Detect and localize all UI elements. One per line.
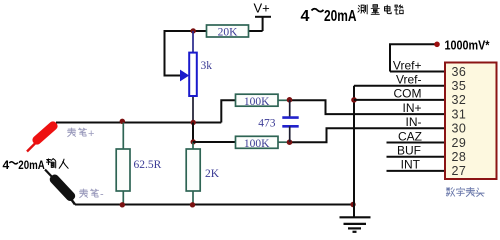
capacitor 473 — [258, 100, 298, 142]
svg-text:30: 30 — [452, 122, 467, 136]
wire Vref- — [354, 85, 446, 87]
power V+ — [254, 1, 272, 31]
svg-text:31: 31 — [452, 107, 467, 121]
resistor 20K — [207, 25, 249, 38]
label 表笔+ — [68, 128, 87, 137]
svg-text:32: 32 — [452, 93, 467, 107]
label 数字表头 — [446, 187, 484, 196]
svg-text:28: 28 — [452, 150, 467, 164]
wire INT stub — [387, 170, 447, 172]
svg-text:29: 29 — [452, 136, 467, 150]
resistor 2K — [186, 142, 220, 205]
svg-text:INT: INT — [401, 158, 421, 172]
svg-text:473: 473 — [258, 118, 276, 130]
svg-text:IN+: IN+ — [402, 101, 421, 115]
wire pot loop — [165, 31, 207, 76]
svg-text:100K: 100K — [244, 138, 270, 150]
svg-text:2K: 2K — [205, 168, 220, 180]
wire 20K row — [249, 30, 263, 32]
svg-text:Vref-: Vref- — [396, 73, 422, 87]
svg-text:IN-: IN- — [406, 115, 422, 129]
svg-text:20K: 20K — [218, 26, 239, 38]
node junction rail 62.5R — [120, 202, 125, 207]
wire BUF stub — [387, 156, 447, 158]
wire pot-to-2K column — [192, 123, 194, 143]
svg-text:3k: 3k — [201, 60, 213, 72]
node junction 62.5R top — [120, 119, 125, 124]
wire IN- jog — [290, 128, 447, 142]
wire COM — [354, 99, 446, 101]
meter U1 digital panel — [445, 63, 497, 180]
wire bottom100K row — [193, 141, 236, 143]
wire 100K left riser — [221, 100, 236, 122]
node junction COM — [351, 97, 357, 103]
title 4~20mA — [301, 8, 357, 25]
node junction cap top — [287, 97, 293, 103]
title 测量电路 — [358, 5, 403, 15]
node Vref+ 1000mV — [390, 37, 490, 71]
svg-text:1000mV*: 1000mV* — [445, 37, 491, 52]
svg-text:20mA: 20mA — [324, 8, 357, 25]
node junction cap bottom — [287, 139, 293, 145]
resistor 62.5R — [116, 123, 161, 205]
svg-text:4: 4 — [3, 158, 10, 172]
node junction rail 2K — [190, 202, 195, 207]
potentiometer 3k — [180, 31, 212, 123]
resistor 100K top — [236, 94, 290, 108]
wire main top row — [56, 122, 221, 124]
svg-text:100K: 100K — [244, 96, 270, 108]
probe red 表笔+ — [27, 120, 59, 152]
node junction pot bottom — [191, 120, 196, 125]
svg-text:20mA: 20mA — [18, 158, 45, 172]
node junction rail ground column — [350, 202, 355, 207]
svg-text:+: + — [88, 128, 94, 140]
svg-text:36: 36 — [452, 65, 467, 79]
label 表笔- — [80, 189, 99, 198]
svg-text:CAZ: CAZ — [398, 129, 422, 143]
svg-text:35: 35 — [452, 79, 467, 93]
svg-text:Vref+: Vref+ — [393, 58, 422, 72]
svg-text:V+: V+ — [254, 1, 270, 16]
wire ground column — [353, 86, 355, 218]
node junction pot top — [191, 28, 196, 33]
probe black 表笔- — [45, 170, 77, 205]
wire ground rail — [75, 204, 354, 206]
wire IN+ jog — [290, 100, 447, 114]
wire Vref+ — [390, 71, 446, 73]
node junction 2K top — [191, 139, 196, 144]
svg-text:62.5R: 62.5R — [134, 159, 162, 171]
svg-text:4: 4 — [301, 8, 310, 25]
svg-text:BUF: BUF — [397, 144, 421, 158]
svg-text:27: 27 — [452, 164, 467, 178]
wire CAZ stub — [387, 142, 447, 144]
svg-text:-: - — [100, 189, 104, 201]
svg-text:COM: COM — [394, 87, 422, 101]
resistor 100K bottom — [236, 136, 290, 150]
label 4~20mA input — [3, 158, 46, 172]
ground — [340, 217, 371, 232]
